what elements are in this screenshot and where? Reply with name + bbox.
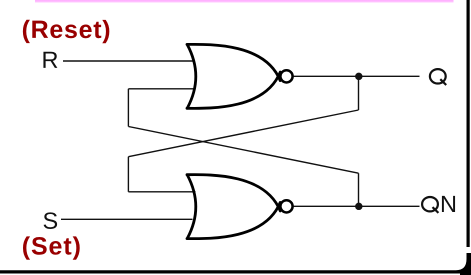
wire Q feedback: diagonal	[128, 110, 358, 157]
U2 output bubble	[280, 200, 292, 212]
node Q junction dot	[355, 73, 362, 80]
wire QN feedback: right vertical up from QN node	[358, 173, 360, 206]
svg-text:R: R	[42, 47, 59, 73]
wire QN feedback: horizontal stub into U1 lower input	[128, 88, 195, 90]
wire U1 output to Q	[294, 75, 420, 77]
wire Q feedback: horizontal stub into U2 upper input	[128, 191, 195, 193]
window frame: bottom bar and rounded bottom-right corner	[0, 253, 471, 275]
svg-text:N: N	[440, 191, 457, 217]
window frame: right black bar	[467, 0, 470, 247]
wire U2 output to QN	[294, 205, 420, 207]
svg-text:S: S	[42, 208, 58, 234]
node QN junction dot	[355, 203, 362, 210]
wire Q feedback: left vertical	[127, 157, 129, 192]
NOR gate U1 (top) body	[187, 44, 280, 108]
wire QN feedback: diagonal	[128, 127, 358, 174]
wire Q feedback: right vertical down from Q node	[358, 76, 360, 110]
wire R input	[63, 60, 193, 62]
NOR gate U2 (bottom) body	[187, 175, 280, 239]
wire S input	[61, 218, 193, 220]
wire QN feedback: left vertical	[127, 89, 129, 127]
svg-text:(Set): (Set)	[22, 233, 82, 261]
svg-text:(Reset): (Reset)	[22, 16, 112, 44]
label QN	[422, 197, 438, 213]
label Q	[430, 69, 446, 85]
U1 output bubble	[280, 70, 292, 82]
